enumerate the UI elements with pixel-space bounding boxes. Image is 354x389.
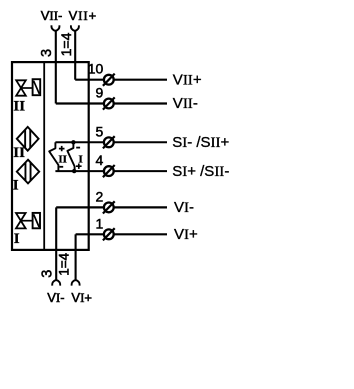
transducer winding symbol I (hourglass) <box>16 213 26 228</box>
terminal 10 <box>104 75 114 85</box>
svg-text:5: 5 <box>96 123 104 139</box>
svg-text:VI-: VI- <box>47 290 64 305</box>
label I (diamond I) <box>13 178 19 194</box>
svg-text:10: 10 <box>88 61 104 77</box>
switch label - (top right) <box>76 147 80 149</box>
terminal 5 <box>104 137 114 147</box>
label VII+ (row 10) <box>173 71 202 88</box>
label SI+/SII- (row 4) <box>172 163 229 180</box>
svg-text:SI- /SII+: SI- /SII+ <box>172 134 229 151</box>
svg-text:II: II <box>13 145 25 161</box>
terminal 2 <box>104 203 114 213</box>
wire VI+ lead (vertical from row 1 down to bottom cup) <box>75 234 77 280</box>
label VII- (top) <box>41 8 63 23</box>
svg-text:4: 4 <box>96 152 104 168</box>
rectangle with diagonal (winding II) <box>33 79 41 95</box>
label VI- (row 2) <box>174 199 194 216</box>
label VII- (row 9) <box>173 95 198 112</box>
rectangle with diagonal (winding I) <box>33 213 40 228</box>
transducer winding symbol II (hourglass) <box>16 80 26 95</box>
svg-text:II: II <box>13 98 25 114</box>
wire row 1 (to terminal 1) <box>76 233 167 235</box>
switch label - (bottom left) <box>59 166 63 168</box>
connector socket VII+ (top right cup) <box>71 25 79 30</box>
wire link hourglass I to rectangle <box>21 220 33 222</box>
rotated label 1=4 (bottom) <box>57 252 72 275</box>
half-bridge diamond I <box>17 160 39 184</box>
polarity selector switch II (left changeover contact) <box>49 142 58 171</box>
svg-text:VII+: VII+ <box>69 8 98 23</box>
label VI- (bottom) <box>47 290 64 305</box>
wire VII+ lead (vertical from cup to row 10 corner) <box>74 31 76 80</box>
svg-text:3: 3 <box>40 270 56 278</box>
svg-text:I: I <box>14 231 20 247</box>
svg-text:VI-: VI- <box>174 199 194 216</box>
svg-text:1=4: 1=4 <box>58 32 74 56</box>
svg-text:3: 3 <box>39 49 55 57</box>
terminal 1 <box>104 229 114 239</box>
half-bridge diamond II <box>17 127 39 151</box>
wire row 4 (switch to terminal 4) <box>55 170 167 172</box>
wire row 5 (switch to terminal 5) <box>55 141 167 143</box>
label I (hourglass I) <box>14 231 20 247</box>
junction node (top, row 5) <box>71 140 75 144</box>
wire link hourglass II to rectangle <box>21 87 33 89</box>
svg-text:II: II <box>58 153 67 165</box>
svg-text:I: I <box>13 178 19 194</box>
label SI-/SII+ (row 5) <box>172 134 229 151</box>
label II (diamond II) <box>13 145 25 161</box>
switch label I (winding I) <box>79 153 83 165</box>
rotated label 1=4 (top) <box>58 32 74 56</box>
switch label II (winding II) <box>58 153 67 165</box>
svg-text:VI+: VI+ <box>174 226 198 243</box>
svg-text:9: 9 <box>96 85 104 101</box>
terminal 4 <box>104 166 114 176</box>
label VII+ (top) <box>69 8 98 23</box>
rotated label 3 (bottom) <box>40 270 56 278</box>
internal divider line <box>43 61 45 250</box>
junction node (bottom, row 4) <box>72 169 76 173</box>
switch label + (top left) <box>59 146 65 151</box>
svg-text:VII-: VII- <box>173 95 198 112</box>
label VI+ (row 1) <box>174 226 198 243</box>
wire row 9 (VII- to terminal 9) <box>56 102 167 104</box>
label VI+ (bottom) <box>71 290 92 305</box>
wire row 2 (to terminal 2) <box>56 206 167 208</box>
svg-text:VII+: VII+ <box>173 71 202 88</box>
svg-text:SI+ /SII-: SI+ /SII- <box>172 163 229 180</box>
terminal 9 <box>104 99 114 109</box>
svg-text:1=4: 1=4 <box>57 252 72 275</box>
wire row 10 (VII+ to terminal 10) <box>75 79 167 81</box>
wire VII- lead (vertical from cup to row 9 corner) <box>55 31 57 104</box>
label II (hourglass II) <box>13 98 25 114</box>
connector socket VII- (top left cup) <box>51 25 59 30</box>
svg-text:VI+: VI+ <box>71 290 92 305</box>
polarity selector switch I (right changeover contact) <box>67 142 74 171</box>
svg-text:1: 1 <box>96 215 104 231</box>
svg-text:VII-: VII- <box>41 8 63 23</box>
rotated label 3 (top) <box>39 49 55 57</box>
svg-text:2: 2 <box>96 188 104 204</box>
wire VI- lead (vertical from row 2 down to bottom cup) <box>55 207 57 280</box>
connector socket VI+ (bottom right cup) <box>72 280 80 285</box>
connector socket VI- (bottom left cup) <box>52 280 60 285</box>
switch label + (bottom right) <box>76 164 82 169</box>
amplifier box outline <box>12 62 89 250</box>
